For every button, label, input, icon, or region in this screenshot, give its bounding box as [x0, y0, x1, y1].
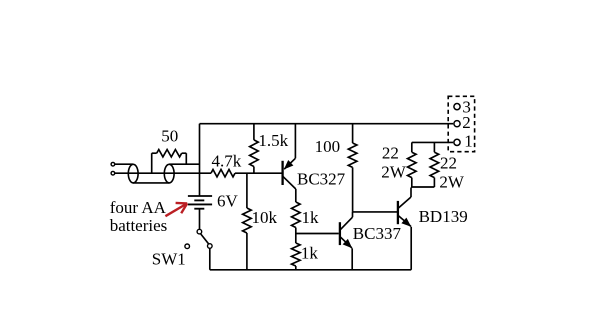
label 4.7k: [212, 151, 242, 170]
resistor 1k upper: [292, 189, 301, 234]
svg-text:10k: 10k: [252, 208, 278, 227]
svg-text:22: 22: [382, 144, 399, 163]
connector dashed outline: [448, 96, 474, 151]
transistor BD139 emitter: [398, 216, 411, 227]
label 1.5k: [258, 131, 288, 150]
resistor 1k lower: [292, 234, 301, 270]
svg-text:100: 100: [315, 137, 341, 156]
svg-text:4.7k: 4.7k: [212, 151, 242, 170]
wire shield top-right: [169, 163, 199, 165]
label BD139: [419, 207, 468, 226]
svg-text:2: 2: [462, 113, 471, 132]
transistor BD139 collector: [398, 188, 411, 209]
svg-text:BC337: BC337: [353, 224, 402, 243]
label four AA: [110, 198, 167, 217]
svg-text:2W: 2W: [381, 163, 407, 182]
wire shield top-left: [115, 163, 133, 165]
red annotation arrow: [165, 203, 187, 216]
label 2W left: [381, 163, 407, 182]
svg-text:6V: 6V: [217, 191, 239, 210]
wire top rail: [200, 123, 454, 125]
transistor BC337 base bar: [339, 222, 341, 245]
connector pin 1: [454, 139, 460, 145]
connector pin 3: [454, 104, 460, 110]
label BC337: [353, 224, 402, 243]
label 2W right: [439, 172, 465, 191]
label 10k: [252, 208, 278, 227]
switch SW1 contact top: [197, 229, 202, 234]
svg-text:2W: 2W: [439, 172, 465, 191]
svg-text:50: 50: [161, 127, 178, 146]
switch SW1 unused throw: [185, 244, 190, 249]
transistor BC327 emitter: [284, 158, 296, 169]
svg-text:1.5k: 1.5k: [258, 131, 288, 150]
wire BC337 emitter to rail: [351, 248, 353, 269]
resistor 1.5k: [250, 124, 259, 174]
resistor 4.7k: [211, 170, 235, 177]
resistor 10k: [243, 173, 252, 270]
wire 1k node to BC337 base: [296, 233, 339, 235]
resistor 50: [152, 150, 187, 174]
svg-text:1k: 1k: [302, 208, 320, 227]
wire 22 bottoms join: [411, 186, 434, 188]
wire battery to switch: [199, 209, 201, 230]
battery 6V: [188, 196, 212, 209]
svg-text:SW1: SW1: [152, 250, 186, 269]
svg-text:batteries: batteries: [110, 216, 168, 235]
svg-text:BC327: BC327: [297, 169, 346, 188]
wire left bus vertical: [199, 124, 201, 196]
label pin 1: [464, 131, 473, 150]
transistor BC327 base bar: [281, 161, 283, 185]
wire center conductor: [115, 172, 211, 174]
resistor 22 right: [430, 142, 439, 187]
label batteries: [110, 216, 168, 235]
wire switch to bottom rail: [209, 248, 211, 269]
label 100: [315, 137, 341, 156]
label BC327: [297, 169, 346, 188]
wire 4.7k to base: [235, 172, 282, 174]
svg-text:four AA: four AA: [110, 198, 167, 217]
switch SW1 contact bottom: [208, 244, 213, 249]
resistor 100: [348, 124, 357, 212]
transistor BC327 collector: [283, 176, 296, 189]
label 1k upper: [302, 208, 320, 227]
label pin 2: [462, 113, 471, 132]
transistor BC337 emitter: [340, 237, 352, 249]
label 22 right: [440, 154, 457, 173]
transistor BD139 base bar: [397, 201, 399, 224]
label 6V: [217, 191, 239, 210]
cable shield left ellipse: [128, 164, 138, 183]
label SW1: [152, 250, 186, 269]
svg-text:1: 1: [464, 131, 473, 150]
wire BC327 emitter to rail: [294, 124, 296, 159]
label pin 3: [462, 97, 471, 116]
wire bottom rail: [210, 269, 411, 271]
label 22 left: [382, 144, 399, 163]
svg-text:BD139: BD139: [419, 207, 468, 226]
wire cable bottom: [133, 182, 169, 184]
label 1k lower: [301, 244, 319, 263]
input jack terminal bottom: [111, 171, 115, 175]
switch SW1 lever: [201, 234, 209, 244]
resistor 22 left: [408, 142, 417, 187]
svg-text:1k: 1k: [301, 244, 319, 263]
wire pin1 feed: [412, 141, 453, 143]
connector pin 2: [454, 121, 460, 127]
transistor BC337 collector: [340, 212, 352, 230]
svg-text:22: 22: [440, 154, 457, 173]
wire BD139 emitter to rail: [410, 227, 412, 270]
cable shield right ellipse: [164, 164, 174, 183]
input jack terminal top: [111, 162, 115, 166]
label 50: [161, 127, 178, 146]
wire to BD139 base: [353, 211, 398, 213]
